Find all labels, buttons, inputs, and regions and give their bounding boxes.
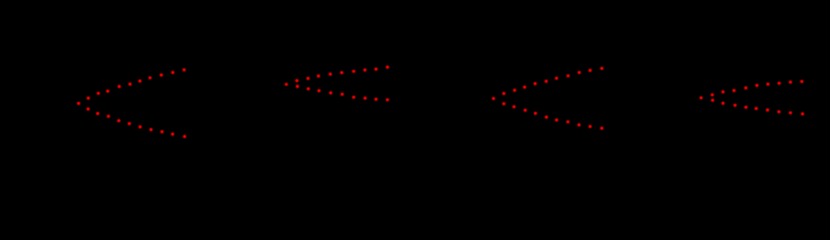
branching diagram 2: lower arm dotted line <box>296 85 389 102</box>
branching diagram 4: vertex dot <box>700 96 703 99</box>
branching diagram 2: vertex dot <box>285 83 288 86</box>
branching diagram 3: vertex dot <box>492 97 495 100</box>
branching diagram 3: upper arm dotted line <box>502 67 603 95</box>
branching diagram 3: lower arm dotted line <box>502 102 603 130</box>
branching diagram 1: vertex dot <box>77 102 80 105</box>
branching diagram 4: lower arm dotted line <box>711 99 804 116</box>
branching diagram 1: lower arm dotted line <box>87 107 187 138</box>
branching diagram 1: upper arm dotted line <box>87 68 186 99</box>
branching diagram 4: upper arm dotted line <box>711 80 804 97</box>
branching diagram 2: upper arm dotted line <box>295 66 389 83</box>
